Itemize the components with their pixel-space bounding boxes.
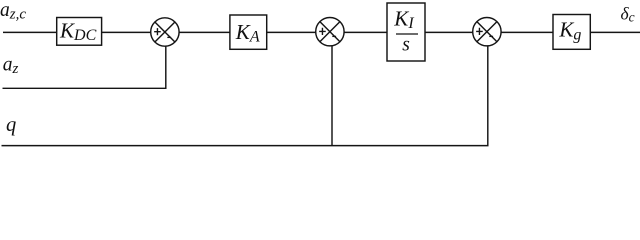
wire S3 to Kg (501, 31, 553, 33)
wire KA to sum S2 (267, 31, 316, 33)
minus sign S3 (489, 35, 493, 37)
wire Kg to output delta_c (590, 31, 640, 33)
svg-text:Kg: Kg (558, 18, 581, 44)
wire KDC to sum S1 (102, 31, 151, 33)
gain block KDC (57, 18, 102, 46)
minus sign S2 (332, 35, 336, 37)
fraction bar of KI/s (396, 33, 418, 35)
svg-text:KDC: KDC (59, 19, 97, 44)
plus sign S3 (476, 28, 483, 35)
svg-text:az,c: az,c (0, 0, 26, 23)
svg-text:KA: KA (235, 20, 260, 45)
minus sign S1 (167, 36, 171, 38)
wire q feedback bottom (2, 46, 488, 146)
plus sign S1 (154, 28, 161, 35)
svg-text:az: az (3, 54, 19, 77)
gain block KA (230, 15, 267, 49)
wire az,c input to KDC (3, 31, 57, 33)
svg-text:q: q (6, 114, 16, 136)
wire KI/s to sum S3 (425, 31, 473, 33)
svg-text:KI: KI (393, 7, 414, 32)
summing junction S3 (473, 18, 501, 46)
svg-text:δc: δc (621, 3, 635, 24)
plus sign S2 (319, 28, 326, 35)
summing junction S2 (316, 18, 344, 46)
wire az feedback horizontal (3, 46, 166, 88)
gain block Kg (553, 15, 590, 50)
integrator block KI/s (387, 3, 425, 61)
wire S1 to KA (179, 31, 230, 33)
summing junction S1 (151, 18, 179, 46)
wire S2 to KI/s (344, 31, 387, 33)
svg-text:s: s (402, 35, 410, 56)
wire q branch up to S2 (331, 46, 333, 146)
